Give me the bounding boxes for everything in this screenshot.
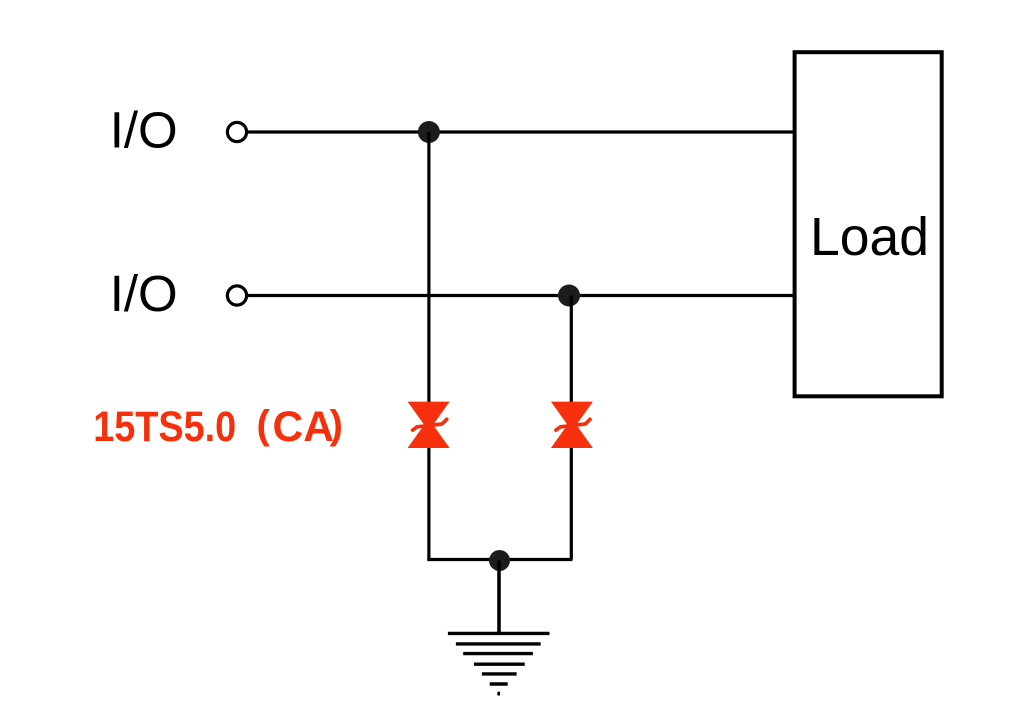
wire I/O2 to Load [247,294,795,297]
svg-text:CA: CA [273,404,334,451]
Load box [795,52,942,396]
svg-text:15TS5.0: 15TS5.0 [93,404,236,451]
svg-text:): ) [330,403,343,447]
node junction dot 2 [558,285,580,307]
node junction dot 3 (ground node) [489,550,510,571]
TVS diode D2 (bidirectional) [551,402,593,448]
wire I/O1 to Load [247,130,795,133]
wire to ground [497,561,501,634]
wire vertical from junction 2 to D2 [570,296,573,560]
terminal circle I/O 2 [227,286,246,305]
svg-text:I/O: I/O [110,102,178,159]
TVS diode D1 (bidirectional) [408,402,450,448]
node junction dot 1 [418,121,440,143]
svg-text:I/O: I/O [110,265,178,322]
ground symbol [448,633,550,695]
wire vertical from junction 1 to D1 [427,132,430,560]
wire bottom horizontal joining D1 and D2 [427,558,572,561]
svg-text:(: ( [257,403,271,447]
terminal circle I/O 1 [227,122,246,141]
svg-text:Load: Load [810,208,929,267]
